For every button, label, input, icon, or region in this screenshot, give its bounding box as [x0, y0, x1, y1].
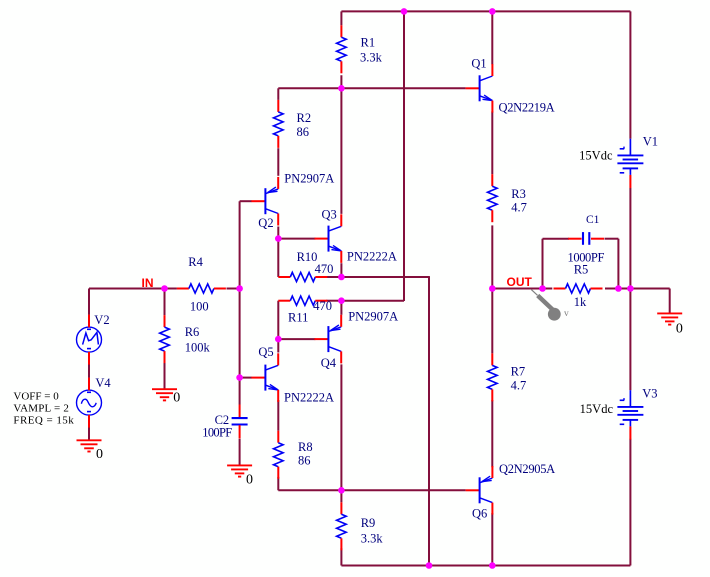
resistor R6	[160, 315, 170, 363]
wire	[240, 200, 252, 202]
ground 0 (C2)	[227, 465, 252, 476]
ground 0 (R6)	[152, 389, 177, 400]
svg-text:V2: V2	[94, 313, 109, 327]
wire	[629, 11, 631, 138]
svg-text:Q6: Q6	[472, 507, 487, 521]
svg-text:0: 0	[96, 447, 103, 462]
svg-text:VOFF = 0: VOFF = 0	[13, 390, 59, 402]
svg-text:Q2N2905A: Q2N2905A	[499, 462, 555, 476]
svg-text:VAMPL = 2: VAMPL = 2	[13, 402, 69, 414]
svg-text:PN2222A: PN2222A	[284, 391, 334, 405]
svg-text:1k: 1k	[574, 295, 587, 309]
capacitor C1	[568, 232, 604, 245]
ground 0 (V4)	[77, 440, 102, 451]
wire	[240, 377, 252, 379]
wire	[277, 301, 279, 339]
wire	[340, 11, 342, 25]
wire	[491, 513, 493, 566]
svg-text:86: 86	[297, 125, 310, 139]
svg-text:3.3k: 3.3k	[360, 50, 383, 64]
wire	[277, 227, 279, 239]
wire	[491, 111, 493, 174]
wire	[326, 300, 341, 302]
wire	[341, 10, 630, 12]
svg-text:V3: V3	[642, 386, 657, 400]
wire	[492, 288, 552, 290]
svg-text:0: 0	[246, 473, 253, 488]
svg-text:4.7: 4.7	[511, 201, 527, 215]
wire	[88, 428, 90, 441]
voltage probe at OUT	[531, 290, 569, 321]
svg-text:PN2222A: PN2222A	[347, 250, 397, 264]
svg-text:100PF: 100PF	[202, 425, 232, 439]
capacitor C2	[232, 405, 248, 439]
wire	[277, 148, 279, 176]
node R9/Q6 base	[338, 487, 345, 494]
wire	[164, 363, 166, 389]
svg-text:C1: C1	[586, 214, 600, 226]
wire	[403, 11, 405, 301]
wire	[277, 477, 279, 490]
svg-text:Q1: Q1	[471, 57, 486, 71]
wire	[491, 400, 493, 467]
wire	[277, 88, 279, 100]
wire	[326, 276, 341, 278]
svg-text:470: 470	[313, 299, 332, 313]
node R4/input	[236, 285, 243, 292]
wire	[605, 238, 619, 240]
svg-text:R11: R11	[288, 311, 308, 325]
wire	[341, 300, 404, 302]
node bottom-rail/Q6	[489, 562, 496, 569]
svg-text:R9: R9	[361, 516, 376, 530]
svg-text:V4: V4	[95, 376, 111, 390]
wire	[164, 289, 166, 316]
svg-text:R2: R2	[297, 111, 312, 125]
node Q5 collector	[275, 336, 282, 343]
svg-text:OUT: OUT	[507, 275, 533, 289]
resistor R7	[488, 353, 498, 401]
node top-rail/bias	[401, 8, 408, 15]
wire	[239, 201, 241, 404]
voltage source V2	[77, 315, 102, 365]
node top-rail/Q1	[489, 8, 496, 15]
resistor R4	[177, 284, 226, 293]
svg-text:4.7: 4.7	[511, 379, 527, 393]
wire	[341, 276, 430, 278]
wire	[629, 188, 631, 289]
resistor R5	[554, 284, 603, 293]
voltage source V1	[617, 139, 643, 188]
transistor Q3	[315, 214, 342, 263]
voltage source V4	[77, 378, 102, 428]
svg-text:Q2N2219A: Q2N2219A	[499, 100, 555, 114]
ground 0 (output)	[657, 313, 682, 324]
wire	[340, 490, 342, 502]
wire	[340, 75, 342, 214]
svg-text:v: v	[564, 309, 569, 319]
node supply mid	[627, 285, 634, 292]
svg-text:R1: R1	[361, 36, 376, 50]
wire	[491, 289, 493, 354]
wire	[277, 339, 279, 352]
resistor R8	[274, 431, 284, 479]
node bottom-rail/bias	[426, 562, 433, 569]
wire	[617, 239, 619, 289]
svg-text:R6: R6	[185, 325, 200, 339]
svg-text:FREQ = 15k: FREQ = 15k	[13, 415, 74, 427]
wire	[278, 238, 315, 240]
transistor Q1	[466, 64, 493, 113]
svg-text:R5: R5	[574, 262, 589, 276]
wire	[88, 289, 90, 315]
wire	[340, 364, 342, 490]
wire	[278, 338, 315, 340]
node C1 right	[615, 285, 622, 292]
wire	[629, 439, 631, 566]
svg-text:0: 0	[173, 390, 180, 405]
wire	[491, 225, 493, 288]
svg-text:Q5: Q5	[258, 345, 273, 359]
wire	[340, 301, 342, 315]
node R5 left	[539, 285, 546, 292]
svg-text:R3: R3	[511, 187, 526, 201]
wire	[542, 239, 544, 289]
svg-text:1000PF: 1000PF	[568, 250, 605, 264]
voltage source V3	[617, 390, 643, 439]
svg-text:Q2: Q2	[258, 216, 273, 230]
wire	[340, 263, 342, 277]
svg-text:100: 100	[190, 299, 209, 313]
svg-text:PN2907A: PN2907A	[284, 172, 334, 186]
transistor Q4	[314, 315, 341, 364]
svg-text:470: 470	[315, 262, 334, 276]
wire	[340, 548, 342, 565]
wire	[277, 239, 279, 277]
wire	[227, 288, 240, 290]
node R1/Q1 base	[338, 85, 345, 92]
wire	[88, 365, 90, 378]
resistor R2	[274, 100, 284, 148]
svg-text:R7: R7	[511, 365, 526, 379]
transistor Q5	[251, 353, 278, 402]
wire	[491, 11, 493, 64]
wire	[605, 288, 670, 290]
wire	[629, 289, 631, 391]
transistor Q2	[251, 177, 278, 226]
svg-text:R8: R8	[298, 440, 313, 454]
svg-text:0: 0	[676, 321, 683, 336]
node R10/Q3 emitter	[338, 274, 345, 281]
wire	[341, 565, 630, 567]
resistor R11	[278, 296, 327, 305]
svg-text:3.3k: 3.3k	[361, 531, 384, 545]
svg-text:Q3: Q3	[322, 208, 337, 222]
svg-text:V1: V1	[643, 135, 658, 149]
node Q5 base	[236, 374, 243, 381]
resistor R3	[488, 174, 498, 222]
wire	[239, 439, 241, 466]
svg-text:15Vdc: 15Vdc	[579, 149, 613, 163]
wire	[89, 288, 177, 290]
node Q2 collector	[275, 235, 282, 242]
svg-text:100k: 100k	[185, 341, 211, 355]
svg-text:PN2907A: PN2907A	[348, 310, 398, 324]
transistor Q6	[466, 466, 493, 515]
node IN junction	[161, 285, 168, 292]
wire	[669, 289, 671, 314]
wire	[428, 277, 430, 566]
svg-text:86: 86	[298, 454, 311, 468]
svg-text:IN: IN	[142, 276, 154, 290]
resistor R9	[337, 502, 347, 550]
resistor R1	[337, 25, 347, 73]
wire	[278, 489, 465, 491]
svg-text:15Vdc: 15Vdc	[580, 402, 614, 416]
wire	[543, 238, 570, 240]
wire	[278, 87, 465, 89]
svg-text:Q4: Q4	[321, 356, 337, 370]
node R11/Q4 emitter	[338, 297, 345, 304]
resistor R10	[278, 272, 327, 281]
node OUT junction	[489, 285, 496, 292]
wire	[277, 400, 279, 431]
svg-text:R4: R4	[188, 255, 203, 269]
